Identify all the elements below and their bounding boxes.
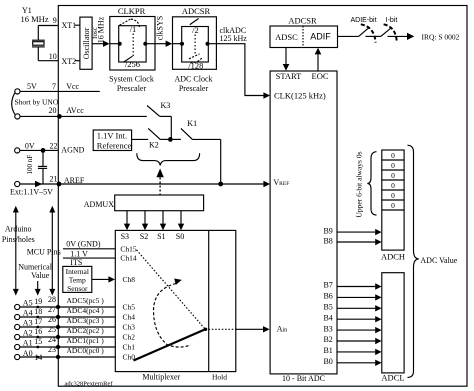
svg-text:0: 0 [391,181,395,190]
svg-text:ADCSR: ADCSR [288,16,317,26]
svg-text:16 MHz: 16 MHz [21,14,49,24]
svg-text:Upper 6-bit always 0s: Upper 6-bit always 0s [355,151,364,217]
svg-text:S1: S1 [157,232,165,241]
svg-text:ADIE-bit: ADIE-bit [350,17,376,24]
svg-text:7: 7 [52,82,56,91]
svg-text:Pins/holes: Pins/holes [2,235,35,244]
svg-text:ADC5(pc5 ): ADC5(pc5 ) [67,296,105,305]
svg-text:ADCL: ADCL [381,372,404,382]
svg-text:A3: A3 [23,318,33,327]
svg-text:adc328PexternRef: adc328PexternRef [65,381,114,388]
svg-text:Reference: Reference [97,140,132,150]
svg-text:10 - Bit ADC: 10 - Bit ADC [282,374,325,383]
svg-text:VREF: VREF [273,178,289,187]
svg-text:IRQ: S 0002: IRQ: S 0002 [422,32,460,41]
svg-text:20: 20 [49,106,57,115]
svg-text:1.1V Int.: 1.1V Int. [97,130,127,140]
svg-text:0V (GND): 0V (GND) [66,240,101,249]
svg-text:Vcc: Vcc [66,82,79,91]
svg-text:System Clock: System Clock [109,75,154,84]
svg-text:0: 0 [391,161,395,170]
svg-text:9: 9 [53,16,57,25]
svg-text:I-bit: I-bit [386,17,398,24]
svg-text:B0: B0 [323,357,332,366]
svg-text:Ch14: Ch14 [120,254,137,263]
svg-text:/1: /1 [130,24,137,34]
svg-text:19: 19 [34,297,42,306]
svg-text:ADCH: ADCH [381,252,405,262]
svg-text:0: 0 [391,201,395,210]
svg-text:16 MHz: 16 MHz [96,16,105,43]
svg-text:24: 24 [48,335,56,344]
svg-text:Ain: Ain [277,325,287,334]
svg-text:K3: K3 [161,101,171,110]
svg-text:Ch3: Ch3 [123,323,136,332]
svg-text:18: 18 [34,307,42,316]
svg-text:ADC4(pc4 ): ADC4(pc4 ) [67,306,105,315]
svg-text:XT1: XT1 [62,21,77,30]
svg-text:ADIF: ADIF [310,32,331,42]
svg-text:CLK(125 kHz): CLK(125 kHz) [274,91,326,101]
svg-text:ITS: ITS [70,258,82,267]
svg-text:10: 10 [49,52,57,61]
svg-text:K2: K2 [149,140,159,149]
svg-text:Ch15: Ch15 [120,244,137,253]
svg-text:17: 17 [34,317,42,326]
svg-text:23: 23 [48,345,56,354]
svg-text:A0: A0 [23,349,33,358]
svg-text:21: 21 [50,174,58,183]
svg-text:0: 0 [391,151,395,160]
svg-text:B4: B4 [323,313,332,322]
svg-text:Multiplexer: Multiplexer [142,372,180,381]
svg-text:Prescaler: Prescaler [179,84,209,93]
svg-text:Ch2: Ch2 [123,333,136,342]
svg-text:Sensor: Sensor [67,284,88,293]
svg-text:16: 16 [34,327,42,336]
svg-text:AREF: AREF [64,176,85,185]
svg-text:MCU Pins: MCU Pins [27,248,61,257]
svg-text:S0: S0 [176,232,184,241]
svg-text:B9: B9 [323,227,332,236]
svg-text:0: 0 [391,171,395,180]
svg-text:Hold: Hold [212,372,227,381]
svg-text:S2: S2 [140,232,148,241]
svg-text:XT2: XT2 [62,57,77,66]
svg-text:27: 27 [48,305,56,314]
svg-text:125 kHz: 125 kHz [220,34,248,43]
svg-text:A5: A5 [23,298,33,307]
svg-text:Numerical: Numerical [18,262,53,271]
svg-text:A2: A2 [23,328,33,337]
svg-text:B7: B7 [323,281,332,290]
svg-text:Ch1: Ch1 [123,343,136,352]
svg-text:Ch0: Ch0 [123,353,136,362]
svg-text:AVcc: AVcc [66,106,84,115]
svg-text:CLKPR: CLKPR [118,6,146,16]
svg-text:ADMUX: ADMUX [84,200,114,209]
svg-text:K1: K1 [187,119,197,128]
svg-text:S3: S3 [121,232,129,241]
svg-text:EOC: EOC [312,71,329,81]
svg-text:Prescaler: Prescaler [117,84,147,93]
svg-text:ADC0(pc0 ): ADC0(pc0 ) [67,346,105,355]
svg-text:Arduino: Arduino [5,225,32,234]
svg-text:28: 28 [48,295,56,304]
svg-text:/256: /256 [125,59,140,69]
svg-text:B5: B5 [323,303,332,312]
svg-text:Oscillator: Oscillator [82,27,91,59]
svg-text:A4: A4 [23,308,33,317]
svg-text:0: 0 [391,191,395,200]
svg-text:ADC Value: ADC Value [420,256,457,265]
svg-text:0V: 0V [25,141,35,150]
svg-text:B1: B1 [323,346,332,355]
svg-text:Value: Value [31,271,50,280]
svg-text:15: 15 [34,337,42,346]
svg-text:Ch4: Ch4 [123,313,136,322]
svg-text:Ch5: Ch5 [123,303,136,312]
svg-text:ADC1(pc1 ): ADC1(pc1 ) [67,336,105,345]
svg-text:25: 25 [48,325,56,334]
svg-text:14: 14 [34,353,42,362]
svg-text:ADC3(pc3 ): ADC3(pc3 ) [67,316,105,325]
svg-text:ADCSR: ADCSR [182,6,211,16]
svg-text:B3: B3 [323,324,332,333]
svg-text:Ext:1.1V–5V: Ext:1.1V–5V [10,188,53,197]
svg-text:/2: /2 [192,25,199,35]
svg-text:B8: B8 [323,237,332,246]
svg-text:ADSC: ADSC [275,32,298,42]
svg-text:22: 22 [50,142,58,151]
svg-text:ADC2(pc2 ): ADC2(pc2 ) [67,326,105,335]
svg-text:START: START [276,71,303,81]
svg-text:Ch8: Ch8 [123,275,136,284]
svg-text:100 nF: 100 nF [26,155,34,175]
svg-text:B6: B6 [323,292,332,301]
svg-text:AGND: AGND [61,145,84,154]
svg-text:clkSYS: clkSYS [156,16,165,40]
svg-text:26: 26 [48,315,56,324]
svg-text:5V: 5V [27,82,37,91]
svg-text:B2: B2 [323,335,332,344]
svg-text:A1: A1 [23,338,33,347]
svg-text:ADC Clock: ADC Clock [175,75,213,84]
svg-text:/128: /128 [188,60,203,70]
